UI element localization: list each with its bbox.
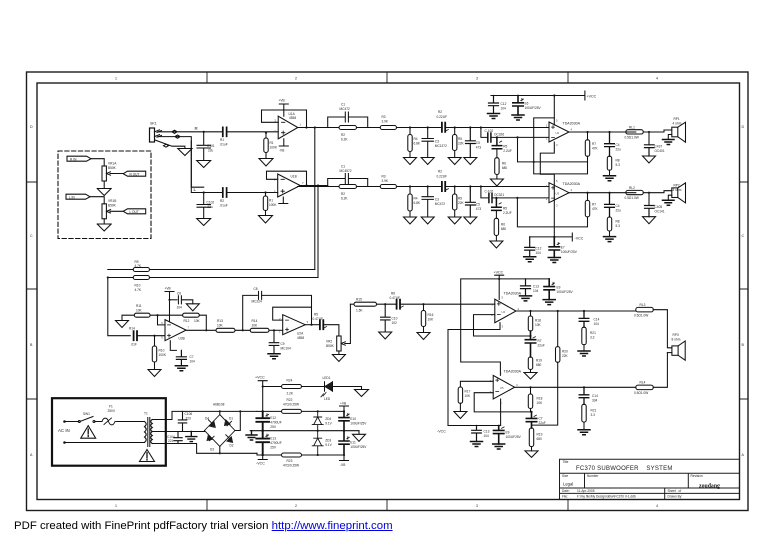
bridge - wire	[219, 446, 221, 453]
ground R10	[148, 370, 161, 377]
ground E9'	[493, 444, 505, 449]
svg-text:9.1V: 9.1V	[325, 422, 332, 426]
ground VR2	[332, 351, 345, 362]
sheet outer border	[27, 72, 749, 511]
bridge + wire	[219, 411, 221, 414]
capacitor C4' 22u (zobel)	[608, 192, 610, 194]
ground R19	[524, 373, 537, 380]
capacitor E11 100UF/25V	[343, 430, 345, 432]
svg-text:MC224: MC224	[252, 300, 263, 304]
svg-text:R5: R5	[458, 137, 462, 141]
svg-text:104: 104	[594, 322, 600, 326]
port R IN	[67, 156, 91, 161]
resistor R7 47K	[586, 131, 588, 133]
resistor R10 100K	[153, 335, 155, 337]
svg-text:U3B: U3B	[179, 337, 185, 341]
output wire U5	[515, 386, 636, 388]
svg-text:E7: E7	[561, 246, 565, 250]
svg-text:25V: 25V	[270, 445, 277, 449]
ground C12	[488, 114, 500, 119]
svg-text:680: 680	[501, 227, 507, 231]
ground E7	[548, 258, 560, 263]
svg-text:R4: R4	[414, 197, 418, 201]
svg-text:5.3: 5.3	[616, 224, 621, 228]
svg-text:R21: R21	[591, 409, 597, 413]
output wire U4	[516, 310, 636, 312]
svg-text:D3: D3	[210, 448, 214, 452]
resistor R7' 47K	[586, 192, 588, 194]
svg-text:-VB: -VB	[340, 463, 345, 467]
svg-text:R4: R4	[414, 137, 418, 141]
svg-text:TDA2030A: TDA2030A	[504, 292, 522, 296]
svg-text:U5: U5	[500, 386, 504, 390]
capacitor C3' MC472	[427, 185, 429, 187]
svg-text:6.2K: 6.2K	[341, 138, 348, 142]
op-amp U1A	[278, 116, 298, 139]
capacitor C12' 104	[525, 237, 535, 257]
svg-text:R2: R2	[438, 110, 442, 114]
resistor R12 10K (feedback)	[183, 313, 200, 317]
capacitor R7 22uF	[529, 335, 531, 337]
svg-text:R2: R2	[341, 133, 345, 137]
svg-text:D2: D2	[230, 444, 234, 448]
svg-text:100UF/25V: 100UF/25V	[350, 422, 367, 426]
ground C437	[643, 156, 656, 163]
svg-text:6.8K: 6.8K	[414, 201, 421, 205]
svg-text:1.5K: 1.5K	[356, 309, 363, 313]
wire	[90, 197, 104, 204]
svg-text:4.7K: 4.7K	[135, 264, 142, 268]
diode D1	[220, 415, 235, 431]
svg-text:R1: R1	[270, 141, 274, 145]
svg-text:Legal: Legal	[563, 482, 573, 487]
ground RP1	[663, 140, 675, 145]
svg-text:4700UF: 4700UF	[270, 421, 281, 425]
svg-text:10K: 10K	[428, 318, 435, 322]
svg-text:+VCC: +VCC	[587, 95, 597, 99]
svg-text:.01uF: .01uF	[220, 143, 228, 147]
svg-text:100UF/25V: 100UF/25V	[525, 106, 542, 110]
svg-text:File:: File:	[562, 495, 568, 499]
secondary top wire	[166, 411, 257, 419]
svg-text:104: 104	[484, 434, 490, 438]
ground C3'	[421, 217, 434, 224]
capacitor R2 0.22uF (series)	[442, 123, 445, 132]
ground R19'	[525, 451, 538, 458]
svg-text:22K: 22K	[458, 142, 465, 146]
feedback wire U1B	[267, 171, 307, 185]
svg-text:RP2: RP2	[674, 183, 680, 187]
svg-text:C7: C7	[190, 355, 194, 359]
fuse F1	[102, 418, 115, 425]
capacitor C102 OC326 (series to pin2)	[480, 126, 482, 128]
power +VB U3B	[165, 292, 174, 322]
resistor R18 10K	[529, 310, 531, 312]
main wire to U2 pin1	[481, 127, 549, 129]
wire	[91, 159, 104, 166]
wire LED to ground	[333, 387, 362, 390]
svg-text:E9: E9	[557, 286, 561, 290]
resistor R16 10K	[422, 303, 424, 305]
wire L channel from jack	[158, 135, 204, 193]
svg-text:C5: C5	[476, 203, 480, 207]
ground C5'	[464, 217, 477, 224]
svg-text:104: 104	[177, 306, 183, 310]
power rail to U5	[498, 278, 500, 280]
svg-text:+VCC: +VCC	[494, 271, 504, 275]
svg-text:C13: C13	[533, 285, 539, 289]
svg-text:C14: C14	[592, 394, 598, 398]
svg-text:+VB: +VB	[165, 287, 171, 291]
svg-text:C5: C5	[476, 141, 480, 145]
svg-text:C-102: C-102	[485, 190, 494, 194]
svg-text:SW1: SW1	[83, 412, 90, 416]
svg-text:334: 334	[592, 399, 598, 403]
svg-text:2.2K: 2.2K	[287, 392, 294, 396]
svg-text:C7: C7	[539, 416, 543, 420]
resistor R5 22K	[454, 126, 456, 128]
svg-text:8 ohm: 8 ohm	[672, 338, 681, 342]
svg-text:R: R	[195, 126, 198, 131]
svg-text:R5: R5	[503, 145, 507, 149]
resistor R1' 100K	[264, 191, 266, 193]
svg-text:47K: 47K	[592, 207, 599, 211]
svg-text:R14: R14	[129, 326, 135, 330]
svg-text:C6: C6	[177, 291, 181, 295]
earth ground mid rail	[246, 431, 257, 440]
svg-text:22K: 22K	[562, 354, 569, 358]
svg-text:Revision: Revision	[691, 474, 703, 478]
svg-text:10K: 10K	[194, 319, 201, 323]
capacitor C1' MC4572 (bridge)	[328, 179, 368, 187]
ground R21	[578, 351, 590, 356]
svg-text:C10: C10	[392, 317, 398, 321]
svg-text:0.5Ω1.0W: 0.5Ω1.0W	[634, 313, 648, 317]
svg-text:11-Apr-2005: 11-Apr-2005	[577, 489, 595, 493]
ground mid rail right	[353, 431, 366, 442]
svg-text:47Ω/0.25W: 47Ω/0.25W	[283, 403, 299, 407]
secondary centre tap wire	[166, 431, 205, 432]
speaker RP3 8 ohm	[672, 346, 678, 355]
op-amp U1B	[278, 174, 301, 197]
resistor R17 10K (pin1 bias)	[460, 381, 493, 387]
wire inv node down to op-amp	[156, 314, 158, 316]
svg-text:9.1V: 9.1V	[325, 443, 332, 447]
svg-text:22u: 22u	[616, 148, 622, 152]
svg-text:10K: 10K	[537, 401, 544, 405]
title block	[560, 459, 740, 499]
svg-text:R24: R24	[287, 379, 293, 383]
svg-text:-VCC: -VCC	[256, 462, 265, 466]
svg-text:R20: R20	[562, 350, 568, 354]
port R OUT	[123, 171, 146, 176]
main wire to U3 pin1	[481, 186, 549, 188]
capacitor E13 4700UF/25V	[262, 430, 264, 432]
svg-text:TDA2030A: TDA2030A	[563, 122, 581, 126]
resistor R6' 680	[495, 210, 497, 218]
resistor R21' 3.3	[582, 404, 586, 422]
svg-text:-VB: -VB	[279, 149, 284, 153]
capacitor C7 104	[176, 350, 186, 365]
svg-text:0.47UF: 0.47UF	[313, 317, 324, 321]
svg-text:+VB: +VB	[340, 401, 346, 405]
svg-text:+VB: +VB	[279, 99, 285, 103]
resistor R3 3.9K	[380, 126, 396, 130]
svg-text:-VCC: -VCC	[437, 430, 446, 434]
svg-text:R23: R23	[287, 459, 293, 463]
svg-text:U2: U2	[556, 131, 560, 135]
svg-text:C8: C8	[254, 287, 258, 291]
svg-text:R3: R3	[382, 175, 386, 179]
svg-text:C-102: C-102	[485, 129, 494, 133]
amplifier U4 TDA2030A	[495, 299, 516, 323]
svg-text:Number: Number	[587, 474, 599, 478]
svg-text:R5: R5	[314, 313, 318, 317]
svg-text:100UF/25V: 100UF/25V	[350, 445, 367, 449]
zener ZD4 9.1V	[317, 410, 319, 412]
feedback wire U1A	[262, 110, 307, 128]
-V rail	[262, 454, 264, 456]
capacitor C1 MC472 (bridge)	[328, 117, 368, 128]
svg-text:R16: R16	[428, 313, 434, 317]
svg-text:MC104: MC104	[281, 347, 292, 351]
wire RL3 to RP3	[653, 310, 672, 348]
dashed volume-control box	[58, 151, 151, 239]
power +VB U1A	[279, 104, 288, 116]
resistor R4 6.8K	[409, 126, 411, 128]
svg-text:C14: C14	[594, 318, 600, 322]
svg-text:MC472: MC472	[435, 202, 446, 206]
ground C13'	[471, 442, 483, 447]
svg-text:C405: C405	[655, 205, 663, 209]
svg-text:D4: D4	[205, 417, 209, 421]
svg-text:473: 473	[476, 146, 482, 150]
resistor R15 1.5K	[350, 303, 354, 305]
svg-text:MC472: MC472	[340, 107, 351, 111]
svg-text:3.3: 3.3	[590, 336, 595, 340]
AC live dot	[63, 420, 66, 423]
ground R5	[448, 158, 461, 165]
resistor R3' 3.9K	[380, 185, 396, 189]
ground C12'	[524, 257, 536, 262]
svg-text:250V: 250V	[108, 409, 116, 413]
svg-text:Title: Title	[563, 460, 569, 464]
svg-text:FC370 SUBWOOFER SYSTEM: FC370 SUBWOOFER SYSTEM	[576, 466, 673, 472]
svg-text:R19: R19	[537, 433, 543, 437]
node bus R down	[314, 126, 316, 128]
svg-text:10K: 10K	[535, 323, 542, 327]
wire +VCC down to U2 pin5	[553, 94, 555, 96]
ground E9	[543, 300, 555, 305]
svg-text:104: 104	[501, 107, 507, 111]
svg-text:4: 4	[656, 504, 658, 508]
svg-text:MC1372: MC1372	[435, 144, 447, 148]
wire to speaker RP1	[643, 130, 672, 145]
svg-text:3.3: 3.3	[591, 413, 596, 417]
ground R4'	[404, 217, 417, 224]
wire L to lower row	[191, 141, 203, 187]
capacitor C101 22u	[203, 131, 205, 133]
svg-text:.01F: .01F	[131, 343, 137, 347]
svg-text:104: 104	[190, 359, 196, 363]
svg-text:4: 4	[656, 77, 658, 81]
svg-text:2.2UF: 2.2UF	[503, 211, 512, 215]
diode D4	[205, 415, 220, 431]
svg-text:0.22UF: 0.22UF	[437, 115, 448, 119]
resistor R19 680	[528, 357, 532, 370]
ground R8	[604, 176, 616, 181]
ground RP2	[663, 200, 675, 205]
svg-text:E6: E6	[525, 102, 529, 106]
svg-text:C13: C13	[484, 430, 490, 434]
capacitor C3 MC1372	[427, 126, 429, 128]
capacitor C5' 473	[469, 185, 471, 187]
svg-text:0.5Ω1.0W: 0.5Ω1.0W	[625, 136, 639, 140]
svg-text:1: 1	[115, 77, 117, 81]
wire summing node down	[108, 278, 133, 336]
diode D3	[205, 431, 220, 447]
resistor R21 3.3	[582, 327, 586, 345]
svg-text:4 ohm: 4 ohm	[673, 122, 682, 126]
capacitor C8 MC224 (SK feedback)	[242, 329, 244, 331]
svg-text:VR1A: VR1A	[108, 162, 117, 166]
capacitor R14 0.1uF (series)	[134, 331, 137, 340]
capacitor C106 223	[178, 411, 186, 431]
wire U3B minus-vb and C7	[170, 341, 176, 351]
resistor R2' 6.2K	[298, 186, 381, 188]
svg-text:3: 3	[476, 77, 478, 81]
AC input box	[52, 398, 166, 466]
ground R21'	[578, 430, 590, 435]
resistor R5' 22K	[454, 185, 456, 187]
svg-text:RL2: RL2	[629, 186, 635, 190]
svg-text:47Ω/0.25W: 47Ω/0.25W	[283, 464, 299, 468]
capacitor R5 2.2UF	[496, 136, 498, 138]
capacitor E6 100UF/25V	[513, 96, 523, 116]
svg-text:E10: E10	[350, 417, 356, 421]
svg-text:R18: R18	[535, 319, 541, 323]
zone divider ticks	[27, 72, 749, 511]
wire U1B out	[300, 186, 328, 187]
svg-text:6.2K: 6.2K	[341, 197, 348, 201]
power +VCC tick	[258, 381, 267, 412]
ground C6	[186, 304, 199, 311]
svg-text:3.9K: 3.9K	[382, 120, 389, 124]
svg-text:C3: C3	[435, 140, 439, 144]
warning triangle 1	[81, 426, 96, 439]
resistor R1 100K	[265, 132, 267, 134]
svg-text:R18: R18	[537, 397, 543, 401]
svg-text:LED1: LED1	[323, 376, 331, 380]
power -VB U1A	[279, 139, 288, 146]
svg-text:C1: C1	[341, 165, 345, 169]
svg-text:22u: 22u	[208, 148, 214, 152]
resistor R8 5.3	[607, 156, 611, 170]
svg-text:R13: R13	[217, 319, 223, 323]
svg-text:C9: C9	[281, 342, 285, 346]
svg-text:VR2: VR2	[326, 340, 332, 344]
svg-text:R1: R1	[269, 199, 273, 203]
svg-text:C12: C12	[536, 247, 542, 251]
svg-text:0.47UF: 0.47UF	[390, 296, 401, 300]
svg-text:100K: 100K	[270, 146, 278, 150]
feedback wire U5 pin2	[474, 393, 531, 412]
resistor R2 6.2K	[328, 127, 381, 129]
svg-text:L IN: L IN	[69, 195, 75, 199]
LED1	[325, 382, 333, 392]
svg-text:100K: 100K	[269, 203, 277, 207]
ground R6'	[490, 241, 503, 248]
potentiometer VR1B	[102, 204, 106, 219]
svg-text:10K: 10K	[465, 394, 472, 398]
svg-text:C437: C437	[655, 145, 663, 149]
ground C7	[175, 366, 187, 371]
ground C3	[421, 158, 434, 165]
svg-text:D1: D1	[229, 417, 233, 421]
output wire U2A	[305, 324, 319, 326]
svg-text:B50K: B50K	[326, 344, 335, 348]
power +VB tick	[340, 406, 349, 411]
resistor R9 4.7K	[133, 268, 149, 272]
feedback staircase U2	[534, 118, 588, 174]
svg-text:2: 2	[295, 504, 297, 508]
capacitor R1' 0.1uF (L series)	[204, 192, 278, 194]
feedback wire U2A	[273, 307, 312, 320]
footer	[14, 520, 393, 532]
svg-text:5.3: 5.3	[616, 163, 621, 167]
inductor RL2 0.5R 1.0W	[626, 190, 644, 194]
svg-text:C4: C4	[616, 143, 620, 147]
svg-text:RL4: RL4	[640, 381, 646, 385]
svg-text:RL3: RL3	[640, 303, 646, 307]
svg-text:0.22UF: 0.22UF	[437, 174, 448, 178]
potentiometer VR1A	[102, 166, 106, 181]
svg-text:OC141: OC141	[655, 210, 665, 214]
+V rail to +VB	[262, 410, 264, 412]
capacitor E9 100UF/25V	[544, 279, 554, 300]
output wire U3	[569, 192, 636, 194]
svg-text:R7: R7	[592, 142, 596, 146]
svg-text:zoudang: zoudang	[699, 483, 720, 489]
capacitor C104 221	[174, 432, 182, 444]
svg-text:10K: 10K	[217, 324, 224, 328]
svg-text:R OUT: R OUT	[130, 172, 140, 176]
capacitor E10 100UF/25V	[343, 410, 345, 412]
feedback staircase U3	[517, 198, 587, 227]
svg-text:4 ohm: 4 ohm	[673, 188, 682, 192]
svg-text:B50K: B50K	[108, 203, 117, 207]
wire U5 pin3 to -VCC	[500, 399, 502, 426]
ground R8'	[604, 237, 616, 242]
svg-text:C: C	[742, 234, 745, 238]
svg-text:R6: R6	[502, 162, 506, 166]
resistor R19' 680	[529, 428, 533, 447]
diode D2	[220, 431, 235, 447]
op-amp U3B	[165, 320, 186, 341]
svg-text:U4: U4	[502, 310, 506, 314]
svg-text:4558: 4558	[289, 116, 296, 120]
jack sleeve to ground	[155, 140, 185, 149]
ground C10	[379, 332, 392, 339]
resistor R11 10K	[122, 315, 134, 320]
capacitor C12 104	[489, 96, 499, 114]
svg-text:Drawn By:: Drawn By:	[668, 495, 683, 499]
power +VCC tick	[495, 275, 504, 299]
output wire U3B	[186, 329, 216, 331]
svg-text:R19: R19	[536, 359, 542, 363]
svg-text:22u: 22u	[616, 209, 622, 213]
svg-text:C12: C12	[501, 102, 507, 106]
